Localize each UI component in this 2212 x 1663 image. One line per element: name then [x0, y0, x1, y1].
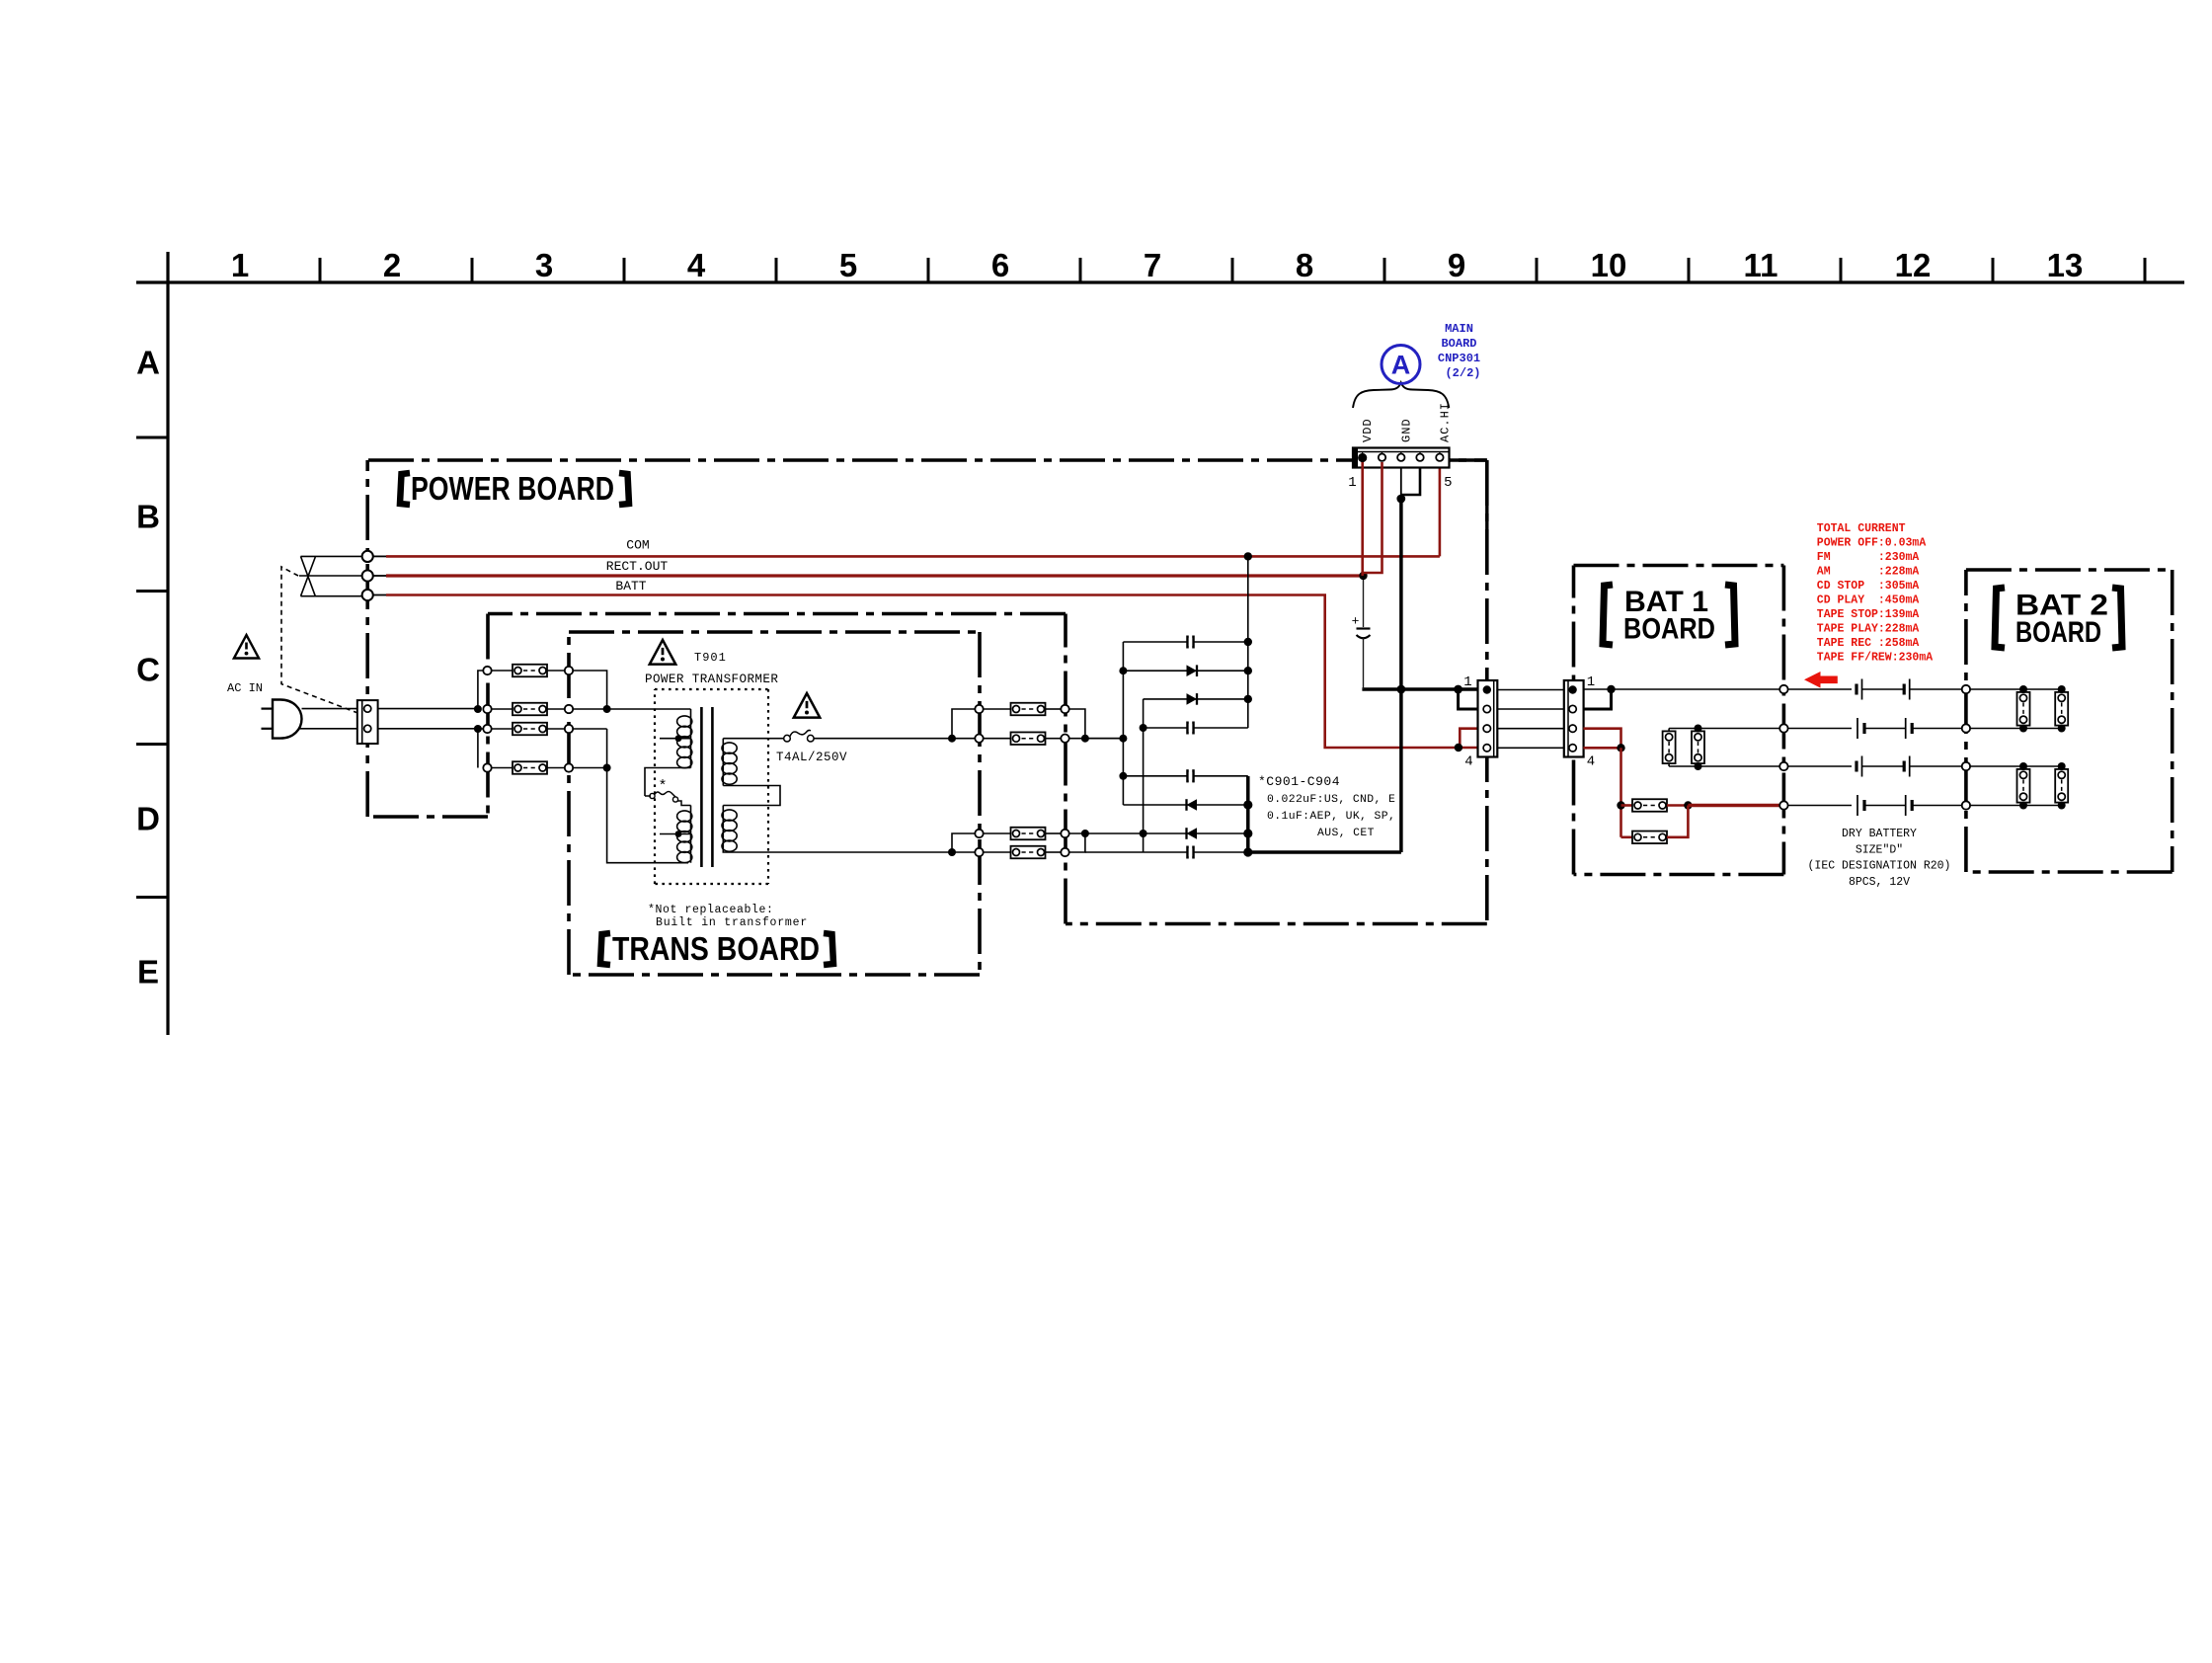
svg-text:CNP301: CNP301 — [1438, 352, 1480, 365]
svg-text:6: 6 — [991, 247, 1009, 283]
svg-text:T4AL/250V: T4AL/250V — [776, 751, 847, 764]
svg-text:COM: COM — [626, 538, 649, 553]
svg-text:BOARD: BOARD — [1441, 337, 1476, 351]
svg-text:4: 4 — [1587, 754, 1595, 770]
svg-text:(2/2): (2/2) — [1445, 366, 1480, 380]
svg-text:*: * — [658, 778, 667, 795]
svg-text:TAPE STOP:139mA: TAPE STOP:139mA — [1817, 608, 1920, 621]
svg-text:MAIN: MAIN — [1445, 322, 1473, 336]
svg-text:POWER TRANSFORMER: POWER TRANSFORMER — [645, 673, 778, 686]
svg-text:VDD: VDD — [1361, 418, 1375, 442]
svg-text:POWER BOARD: POWER BOARD — [411, 470, 614, 507]
svg-text:Built in transformer: Built in transformer — [656, 916, 808, 929]
svg-text:AC IN: AC IN — [227, 681, 263, 695]
svg-text:TAPE FF/REW:230mA: TAPE FF/REW:230mA — [1817, 652, 1933, 665]
svg-text:1: 1 — [1463, 674, 1471, 690]
svg-text:11: 11 — [1744, 247, 1778, 283]
svg-text:1: 1 — [231, 247, 249, 283]
svg-text:AC.HI: AC.HI — [1439, 402, 1453, 442]
svg-text:TOTAL CURRENT: TOTAL CURRENT — [1817, 522, 1906, 535]
svg-text:AUS, CET: AUS, CET — [1317, 828, 1375, 839]
svg-text:FM :230mA: FM :230mA — [1817, 551, 1920, 564]
svg-text:(IEC DESIGNATION R20): (IEC DESIGNATION R20) — [1808, 860, 1951, 873]
svg-text:AM :228mA: AM :228mA — [1817, 566, 1920, 579]
svg-text:8PCS, 12V: 8PCS, 12V — [1849, 876, 1910, 889]
svg-text:*C901-C904: *C901-C904 — [1258, 774, 1340, 789]
svg-text:A: A — [1391, 351, 1411, 380]
svg-text:TAPE PLAY:228mA: TAPE PLAY:228mA — [1817, 623, 1920, 636]
svg-text:C: C — [136, 652, 160, 688]
svg-text:BOARD: BOARD — [2015, 616, 2101, 649]
svg-text:0.022uF:US, CND, E: 0.022uF:US, CND, E — [1267, 794, 1395, 806]
svg-text:8: 8 — [1296, 247, 1313, 283]
svg-text:1: 1 — [1587, 674, 1595, 690]
svg-text:5: 5 — [839, 247, 857, 283]
svg-text:*Not replaceable:: *Not replaceable: — [648, 904, 774, 916]
svg-text:CD PLAY :450mA: CD PLAY :450mA — [1817, 594, 1920, 607]
svg-text:3: 3 — [535, 247, 553, 283]
svg-text:TRANS BOARD: TRANS BOARD — [612, 930, 820, 967]
svg-text:SIZE"D": SIZE"D" — [1856, 843, 1903, 856]
svg-text:D: D — [136, 801, 160, 837]
svg-text:10: 10 — [1591, 247, 1627, 283]
svg-text:12: 12 — [1895, 247, 1932, 283]
svg-text:4: 4 — [1464, 754, 1472, 770]
svg-text:B: B — [136, 499, 160, 535]
svg-text:POWER OFF:0.03mA: POWER OFF:0.03mA — [1817, 537, 1927, 550]
svg-text:GND: GND — [1399, 418, 1413, 442]
svg-text:13: 13 — [2047, 247, 2084, 283]
svg-text:RECT.OUT: RECT.OUT — [606, 559, 669, 574]
svg-text:4: 4 — [687, 247, 706, 283]
svg-text:2: 2 — [383, 247, 401, 283]
svg-text:BATT: BATT — [615, 579, 646, 594]
svg-text:1: 1 — [1348, 475, 1356, 491]
svg-text:CD STOP :305mA: CD STOP :305mA — [1817, 580, 1920, 593]
svg-text:5: 5 — [1444, 475, 1452, 491]
svg-text:+: + — [1352, 614, 1360, 629]
svg-text:TAPE REC :258mA: TAPE REC :258mA — [1817, 637, 1920, 650]
svg-text:T901: T901 — [694, 651, 727, 665]
svg-text:0.1uF:AEP, UK, SP,: 0.1uF:AEP, UK, SP, — [1267, 811, 1395, 823]
svg-text:E: E — [137, 954, 159, 990]
svg-text:9: 9 — [1448, 247, 1465, 283]
svg-text:A: A — [136, 345, 160, 381]
svg-text:BOARD: BOARD — [1623, 613, 1715, 646]
svg-text:DRY BATTERY: DRY BATTERY — [1842, 828, 1917, 840]
svg-text:7: 7 — [1144, 247, 1161, 283]
